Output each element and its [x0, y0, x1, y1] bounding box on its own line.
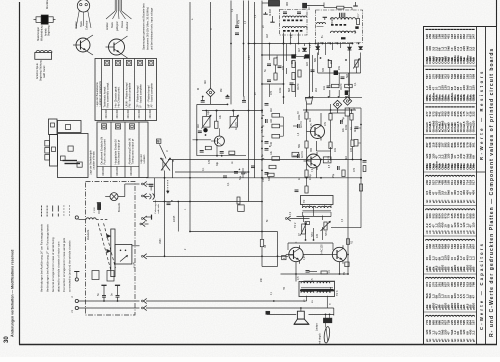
svg-text:Änderungen vorbehalten — Modif: Änderungen vorbehalten — Modifications r… — [11, 250, 15, 337]
svg-text:AC151: AC151 — [327, 155, 330, 162]
svg-text:8k2: 8k2 — [345, 155, 348, 160]
svg-text:47n: 47n — [238, 19, 241, 24]
svg-text:Emitter: Emitter — [75, 21, 78, 29]
svg-text:FM - board complete: FM - board complete — [128, 82, 132, 107]
svg-text:Connection arrangement in case: Connection arrangement in case aerial ge… — [62, 237, 66, 292]
svg-text:2k2: 2k2 — [197, 123, 200, 128]
svg-text:3V: 3V — [298, 111, 300, 114]
svg-text:Ohm: Ohm — [471, 163, 475, 170]
svg-text:470: 470 — [270, 90, 273, 95]
svg-text:Hw Chassis print.: Hw Chassis print. — [117, 86, 121, 107]
svg-text:100µ: 100µ — [309, 174, 312, 180]
svg-text:IF - board complete: IF - board complete — [139, 84, 143, 108]
svg-text:68: 68 — [471, 155, 475, 159]
svg-text:Druckknopf: Druckknopf — [46, 0, 49, 9]
svg-text:U: U — [71, 296, 74, 298]
svg-text:120: 120 — [471, 222, 475, 227]
svg-text:FM: FM — [221, 89, 223, 92]
svg-text:5k6: 5k6 — [346, 73, 349, 78]
svg-text:470: 470 — [282, 65, 285, 70]
svg-text:Ohm: Ohm — [471, 94, 475, 101]
svg-text:Verbindungen bei Ausführung „N: Verbindungen bei Ausführung „N” am Fahrz… — [40, 223, 44, 292]
svg-text:1k2: 1k2 — [309, 117, 312, 122]
svg-text:0,5: 0,5 — [297, 276, 300, 280]
svg-text:800-899: 800-899 — [130, 166, 133, 175]
svg-text:µF: µF — [471, 200, 475, 204]
svg-text:Verbindungen bei Ausführung „P: Verbindungen bei Ausführung „P” am Fahrz… — [45, 224, 49, 292]
svg-text:Wickelrichtung: Wickelrichtung — [41, 25, 44, 41]
svg-text:TR: TR — [303, 199, 306, 203]
svg-text:300-399: 300-399 — [149, 109, 152, 118]
svg-text:Beleucht.: Beleucht. — [118, 202, 121, 212]
svg-text:Masse: Masse — [121, 20, 124, 28]
svg-text:und bei minimum horiz. input v: und bei minimum horiz. input voltage — [150, 7, 154, 50]
svg-text:TR 3: TR 3 — [336, 290, 339, 296]
svg-text:Beginning: Beginning — [48, 25, 51, 36]
svg-text:2,2: 2,2 — [471, 330, 475, 335]
svg-text:800-899: 800-899 — [116, 166, 119, 175]
svg-text:General arrangement in case of: General arrangement in case of aerial be… — [51, 237, 55, 292]
svg-text:radio side: radio side — [157, 203, 160, 213]
svg-text:1N60: 1N60 — [160, 238, 162, 244]
svg-text:Spannungen gemessen mit Batter: Spannungen gemessen mit Batterie-betr. — [142, 3, 146, 50]
svg-text:300-399: 300-399 — [105, 109, 108, 118]
svg-text:4k7: 4k7 — [354, 127, 357, 132]
svg-text:330: 330 — [268, 176, 271, 181]
svg-text:connected to (and on) the vehi: connected to (and on) the vehicle chassi… — [68, 240, 72, 292]
svg-text:517: 517 — [471, 180, 475, 185]
svg-text:559: 559 — [471, 74, 475, 79]
svg-text:470: 470 — [353, 167, 356, 172]
svg-text:M: M — [198, 88, 200, 90]
svg-text:weiß Faden: weiß Faden — [43, 65, 46, 78]
svg-text:pF: pF — [471, 230, 475, 234]
svg-text:460: 460 — [286, 1, 289, 6]
svg-text:1,2: 1,2 — [471, 256, 475, 261]
svg-text:3,5: 3,5 — [471, 46, 475, 51]
svg-text:AM: AM — [266, 34, 269, 38]
svg-text:AC151: AC151 — [301, 150, 304, 158]
svg-text:pF: pF — [471, 268, 475, 272]
svg-text:OA70: OA70 — [340, 83, 343, 90]
svg-text:br: br — [329, 303, 332, 305]
svg-text:C-Werte — Capacitors: C-Werte — Capacitors — [479, 242, 484, 330]
svg-text:361: 361 — [471, 142, 475, 147]
svg-text:Basis: Basis — [80, 20, 83, 27]
svg-text:Fahrzeugseite: Fahrzeugseite — [154, 199, 157, 214]
svg-text:0,5: 0,5 — [311, 278, 314, 282]
svg-text:25µ: 25µ — [332, 173, 335, 178]
svg-text:Location of components: Location of components — [99, 80, 102, 106]
svg-text:R- und C-Werte der gedruckten: R- und C-Werte der gedruckten Platten — … — [489, 48, 495, 337]
svg-text:100k: 100k — [345, 124, 348, 130]
svg-text:9V: 9V — [263, 25, 265, 28]
svg-text:1k8: 1k8 — [270, 118, 273, 123]
svg-text:an VE: an VE — [134, 262, 136, 268]
svg-text:R-Werte — Resistors: R-Werte — Resistors — [479, 69, 484, 160]
svg-text:LS: LS — [71, 310, 74, 313]
svg-text:AF 115: AF 115 — [235, 122, 238, 130]
svg-text:TR: TR — [284, 287, 286, 290]
svg-text:Collector: Collector — [126, 21, 129, 31]
svg-text:220: 220 — [471, 85, 475, 90]
svg-text:30: 30 — [4, 336, 10, 343]
svg-text:2×AC128: 2×AC128 — [321, 244, 324, 255]
svg-text:390: 390 — [310, 147, 313, 152]
svg-text:9V: 9V — [343, 272, 346, 275]
svg-text:0,25: 0,25 — [304, 255, 306, 260]
svg-text:535: 535 — [471, 213, 475, 218]
svg-text:12p: 12p — [207, 110, 210, 115]
svg-text:OA70: OA70 — [297, 83, 300, 90]
svg-text:pF: pF — [471, 338, 475, 342]
svg-text:AF - board complete: AF - board complete — [150, 83, 154, 108]
svg-text:Zündschl.: Zündschl. — [87, 229, 90, 240]
svg-text:Instrument 300 Ω/V (Mes. 30.62: Instrument 300 Ω/V (Mes. 30.62MHz) — [146, 7, 150, 50]
svg-text:Tuning assy output pr: Tuning assy output pr — [131, 139, 135, 165]
svg-text:10,7: 10,7 — [358, 13, 360, 18]
svg-text:807: 807 — [471, 244, 475, 249]
svg-text:M 493: M 493 — [269, 8, 272, 16]
svg-text:6k8: 6k8 — [288, 87, 291, 92]
svg-text:300-399: 300-399 — [127, 109, 130, 118]
svg-text:Collector: Collector — [86, 20, 89, 30]
svg-text:167: 167 — [471, 320, 475, 325]
svg-text:0,1: 0,1 — [354, 82, 357, 86]
svg-text:mit eingeb.: mit eingeb. — [319, 332, 322, 344]
svg-text:222: 222 — [471, 111, 475, 116]
svg-text:0,1: 0,1 — [227, 182, 230, 186]
svg-text:800-899: 800-899 — [102, 166, 105, 175]
svg-text:Basis: Basis — [111, 21, 114, 28]
svg-text:NTC: NTC — [325, 231, 328, 236]
svg-text:Location: Location — [143, 154, 146, 164]
svg-text:2k2: 2k2 — [315, 87, 318, 92]
svg-text:330: 330 — [322, 67, 325, 72]
svg-text:300-399: 300-399 — [116, 109, 119, 118]
svg-text:50µ: 50µ — [239, 175, 242, 180]
svg-text:30p: 30p — [216, 161, 219, 166]
svg-text:Location of knobs: Location of knobs — [93, 150, 96, 170]
svg-text:10n: 10n — [261, 108, 264, 113]
svg-text:47: 47 — [471, 295, 475, 299]
svg-text:120: 120 — [471, 120, 475, 125]
svg-text:247: 247 — [471, 34, 475, 39]
svg-text:Push unit output print: Push unit output print — [103, 139, 107, 165]
svg-text:AM: AM — [204, 80, 207, 84]
svg-text:2x625: 2x625 — [174, 215, 176, 222]
svg-text:Lautspr.: Lautspr. — [316, 322, 319, 331]
svg-text:attached to vehicle chassis of: attached to vehicle chassis of motor car… — [57, 241, 61, 292]
svg-text:pF: pF — [471, 306, 475, 310]
svg-text:sw: sw — [312, 300, 314, 303]
svg-text:0,15: 0,15 — [311, 123, 313, 128]
svg-text:470: 470 — [208, 159, 211, 164]
svg-text:TR 2: TR 2 — [294, 222, 297, 228]
svg-text:gelb/grün: gelb/grün — [116, 20, 119, 31]
svg-text:788: 788 — [471, 282, 475, 287]
svg-text:100: 100 — [270, 141, 273, 146]
svg-text:1k5: 1k5 — [306, 61, 309, 66]
svg-text:400: 400 — [471, 190, 475, 195]
svg-text:FM: FM — [354, 30, 357, 34]
svg-text:300-399: 300-399 — [138, 109, 141, 118]
svg-text:10.7: 10.7 — [308, 5, 311, 10]
svg-text:Key assembly compl.: Key assembly compl. — [106, 82, 110, 108]
svg-text:Ohm: Ohm — [471, 125, 475, 132]
svg-text:2n2: 2n2 — [330, 59, 333, 64]
svg-text:Main board output pr: Main board output pr — [117, 140, 121, 165]
svg-text:4,5V: 4,5V — [249, 55, 251, 60]
svg-text:AC151: AC151 — [300, 120, 303, 128]
svg-text:Ohm: Ohm — [471, 57, 475, 64]
svg-text:130: 130 — [316, 233, 319, 238]
svg-text:460kHz: 460kHz — [332, 16, 334, 25]
svg-text:10n: 10n — [323, 85, 326, 90]
svg-text:220: 220 — [350, 147, 353, 152]
svg-text:Emitter: Emitter — [106, 22, 109, 30]
svg-text:2V: 2V — [255, 92, 257, 95]
svg-text:4n7: 4n7 — [298, 47, 301, 52]
svg-text:2k2: 2k2 — [270, 107, 273, 112]
svg-text:100k: 100k — [279, 87, 282, 93]
svg-text:Z 100: Z 100 — [94, 207, 96, 213]
